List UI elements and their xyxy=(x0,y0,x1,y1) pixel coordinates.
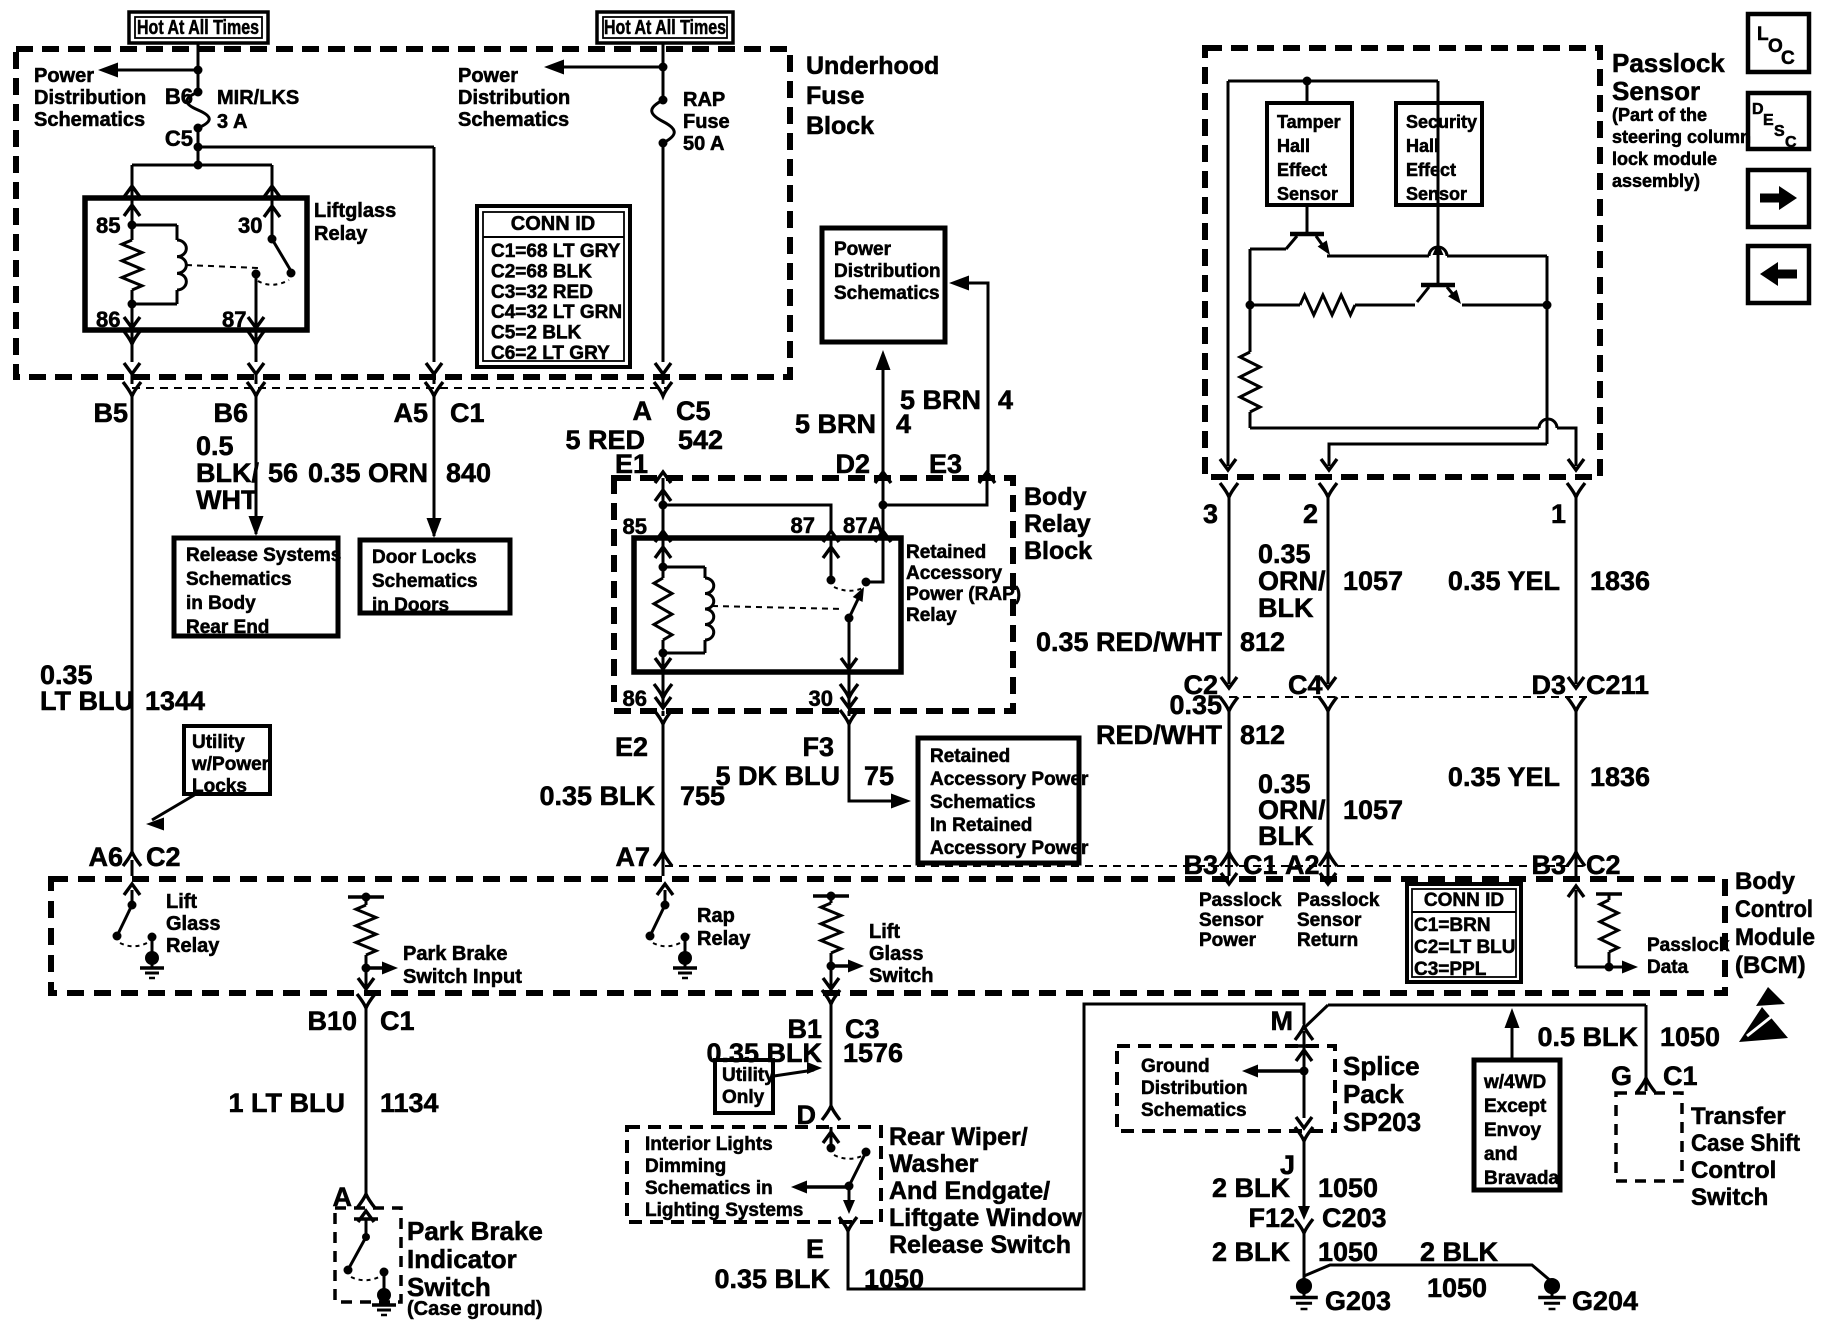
svg-text:Utility: Utility xyxy=(192,732,245,753)
svg-text:CONN ID: CONN ID xyxy=(1424,890,1504,911)
svg-text:Envoy: Envoy xyxy=(1484,1120,1541,1141)
svg-text:Sensor: Sensor xyxy=(1277,184,1338,204)
RAP coil actuation dashed link xyxy=(712,606,843,609)
svg-text:0.35: 0.35 xyxy=(1258,539,1311,569)
svg-text:Power (RAP): Power (RAP) xyxy=(906,584,1021,605)
CONN ID table (underhood) xyxy=(477,206,630,367)
wire pin 30 xyxy=(848,618,851,672)
svg-text:Effect: Effect xyxy=(1406,160,1456,180)
connector B10 C1 xyxy=(357,994,375,1008)
svg-text:1057: 1057 xyxy=(1343,795,1403,825)
svg-text:RAP: RAP xyxy=(683,89,725,111)
svg-text:Switch Input: Switch Input xyxy=(403,966,522,988)
CONN ID table (BCM) xyxy=(1407,884,1521,982)
svg-text:Release Systems: Release Systems xyxy=(186,545,341,566)
svg-text:0.5: 0.5 xyxy=(196,431,234,461)
svg-text:3: 3 xyxy=(1203,499,1218,529)
node at 147 xyxy=(194,143,203,152)
utility box arrow to B5 wire xyxy=(152,794,196,820)
node D2/E3 link xyxy=(879,501,888,510)
node 85 feed xyxy=(659,501,668,510)
svg-text:C: C xyxy=(1781,48,1795,69)
wire A2 (pin2) xyxy=(1327,711,1330,852)
wire RAP fuse down to A/C5 xyxy=(662,143,665,362)
wire arrow to power distribution schematics (middle) xyxy=(558,66,663,69)
svg-text:2 BLK: 2 BLK xyxy=(1212,1237,1291,1267)
svg-text:D: D xyxy=(1752,101,1764,118)
connector B5 xyxy=(123,382,141,396)
svg-text:Transfer: Transfer xyxy=(1691,1103,1786,1130)
ground (rap relay) xyxy=(678,951,692,965)
svg-text:Locks: Locks xyxy=(192,776,247,797)
wire G into transfer box xyxy=(1645,1078,1648,1091)
svg-text:86: 86 xyxy=(96,307,120,332)
svg-text:Lighting Systems: Lighting Systems xyxy=(645,1200,803,1221)
utility only box xyxy=(715,1060,773,1113)
pin 86 stub xyxy=(662,672,665,705)
svg-text:87: 87 xyxy=(222,307,246,332)
svg-text:Retained: Retained xyxy=(906,542,986,563)
park brake switch travel arc xyxy=(351,1276,381,1280)
svg-text:Retained: Retained xyxy=(930,746,1010,767)
svg-text:B5: B5 xyxy=(93,398,128,428)
svg-text:5 BRN: 5 BRN xyxy=(900,385,981,415)
svg-text:Park Brake: Park Brake xyxy=(403,943,508,965)
svg-text:812: 812 xyxy=(1240,627,1285,657)
node under hot box 2 xyxy=(659,63,668,72)
svg-text:Distribution: Distribution xyxy=(834,261,941,282)
svg-text:542: 542 xyxy=(678,425,723,455)
svg-text:1 LT BLU: 1 LT BLU xyxy=(229,1088,346,1118)
svg-text:G: G xyxy=(1611,1061,1632,1091)
wire A5 to door locks box xyxy=(433,396,436,536)
fuse MIR/LKS 3A xyxy=(194,88,203,97)
ground G204 xyxy=(1544,1278,1560,1294)
node coil bottom xyxy=(128,300,137,309)
svg-text:Power: Power xyxy=(458,65,518,87)
wire bus to tamper sensor xyxy=(1306,81,1309,103)
svg-text:C4: C4 xyxy=(1288,670,1323,700)
connector B6 xyxy=(247,382,265,396)
wire 87A contact xyxy=(866,538,883,582)
wire B1 down to D xyxy=(830,1004,833,1106)
svg-text:A: A xyxy=(633,396,653,426)
svg-text:Schematics: Schematics xyxy=(1141,1100,1247,1121)
svg-text:Lift: Lift xyxy=(869,921,900,943)
svg-text:30: 30 xyxy=(238,213,262,238)
wire junction to A5/C1 branch (right then down) xyxy=(198,146,434,149)
fuse RAP 50A xyxy=(659,96,668,105)
svg-text:Underhood: Underhood xyxy=(806,52,939,80)
w/4WD arrow up xyxy=(1511,1026,1514,1060)
svg-text:Body: Body xyxy=(1735,868,1796,895)
svg-text:And Endgate/: And Endgate/ xyxy=(889,1177,1050,1205)
utility only arrow xyxy=(774,1070,814,1076)
svg-text:1576: 1576 xyxy=(843,1038,903,1068)
svg-text:Module: Module xyxy=(1735,924,1815,951)
svg-text:C5: C5 xyxy=(676,396,711,426)
power distribution schematics box (right) xyxy=(822,228,945,342)
RAP relay box xyxy=(634,538,901,672)
svg-text:Security: Security xyxy=(1406,112,1477,132)
park brake switch arm xyxy=(349,1237,366,1268)
svg-text:C1: C1 xyxy=(1663,1061,1698,1091)
park brake switch input resistor xyxy=(348,895,384,899)
svg-text:Hall: Hall xyxy=(1277,136,1310,156)
svg-text:BLK: BLK xyxy=(1258,821,1314,851)
wire fuse to junction xyxy=(197,128,200,147)
svg-text:1836: 1836 xyxy=(1590,566,1650,596)
svg-text:0.35: 0.35 xyxy=(1169,690,1222,720)
svg-text:C3=PPL: C3=PPL xyxy=(1414,959,1487,980)
wire E2 down to A7 xyxy=(662,724,665,852)
svg-text:0.35 BLK: 0.35 BLK xyxy=(714,1264,830,1294)
connector B1 C3 xyxy=(822,990,840,1004)
passlock data resistor xyxy=(1596,892,1622,896)
svg-text:LT BLU: LT BLU xyxy=(40,686,134,716)
wire A5 branch crossing border xyxy=(426,363,442,374)
svg-text:0.35 YEL: 0.35 YEL xyxy=(1448,566,1560,596)
svg-text:30: 30 xyxy=(809,686,833,711)
svg-text:F12: F12 xyxy=(1248,1203,1295,1233)
svg-text:B10: B10 xyxy=(307,1006,357,1036)
svg-text:C2=LT BLU: C2=LT BLU xyxy=(1414,937,1516,958)
svg-text:0.5 BLK: 0.5 BLK xyxy=(1537,1022,1638,1052)
svg-text:Switch: Switch xyxy=(869,965,933,987)
svg-text:87: 87 xyxy=(791,513,815,538)
svg-text:5 DK BLU: 5 DK BLU xyxy=(715,761,840,791)
node coil bottom RAP xyxy=(659,649,668,658)
chevron E3 entry xyxy=(979,472,995,483)
svg-text:S: S xyxy=(1774,123,1785,140)
svg-text:Rear Wiper/: Rear Wiper/ xyxy=(889,1123,1028,1151)
wire Q1 emitter down to resistor row xyxy=(1249,249,1252,305)
svg-text:4: 4 xyxy=(998,385,1013,415)
w/4WD except envoy and bravada box xyxy=(1474,1060,1560,1190)
pin 30 stub xyxy=(848,672,851,705)
hot at all times box 1 xyxy=(129,12,268,43)
node coil top xyxy=(128,221,137,230)
svg-text:Bravada: Bravada xyxy=(1484,1168,1559,1189)
svg-text:(BCM): (BCM) xyxy=(1735,952,1806,979)
svg-text:3 A: 3 A xyxy=(217,111,247,133)
svg-text:Lift: Lift xyxy=(166,891,197,913)
svg-text:and: and xyxy=(1484,1144,1518,1165)
wire pin 86 to B5 connector xyxy=(131,330,134,362)
connector E xyxy=(839,1217,857,1231)
pin 87A chevron + label xyxy=(875,531,891,542)
svg-text:0.35 ORN: 0.35 ORN xyxy=(308,458,428,488)
wire 85 into relay xyxy=(662,505,665,538)
svg-text:C1: C1 xyxy=(380,1006,415,1036)
liftglass relay switch contact 87 xyxy=(252,270,261,279)
connector row C2/C4/D3 dashed xyxy=(1229,696,1590,698)
svg-text:Return: Return xyxy=(1297,930,1358,951)
RAP relay coil feed xyxy=(662,538,665,567)
svg-text:Hot At All Times: Hot At All Times xyxy=(137,17,259,39)
wire Q2 collector to right rail node xyxy=(1462,304,1547,307)
connector fine dashed row above BCM xyxy=(665,865,1583,867)
connector A5 C1 xyxy=(425,382,443,396)
splice pack entry bar xyxy=(1295,1044,1313,1048)
svg-text:Sensor: Sensor xyxy=(1297,910,1362,931)
park brake indicator switch dashed box xyxy=(335,1208,401,1302)
connector F3 xyxy=(848,711,851,716)
lift glass relay switch (in BCM) xyxy=(124,884,140,895)
park brake switch input arrow xyxy=(362,964,371,973)
transfer case shift control switch dashed box xyxy=(1616,1093,1682,1181)
svg-text:Sensor: Sensor xyxy=(1199,910,1264,931)
RAP relay resistor xyxy=(662,567,665,578)
wire E3 link xyxy=(883,478,987,505)
svg-text:Case Shift: Case Shift xyxy=(1691,1130,1800,1157)
wire B10 to park brake switch xyxy=(365,1008,368,1194)
svg-text:Power: Power xyxy=(1199,930,1257,951)
svg-text:Relay: Relay xyxy=(314,223,368,245)
svg-text:D3: D3 xyxy=(1531,670,1566,700)
svg-text:In Retained: In Retained xyxy=(930,815,1032,836)
wire coil to pin 86 xyxy=(131,304,134,330)
svg-text:2: 2 xyxy=(1303,499,1318,529)
svg-text:E2: E2 xyxy=(615,732,648,762)
svg-text:Distribution: Distribution xyxy=(1141,1078,1248,1099)
lift glass switch arrow xyxy=(827,962,836,971)
rear wiper switch travel arc xyxy=(834,1155,862,1159)
svg-text:Power: Power xyxy=(834,239,892,260)
svg-text:Accessory: Accessory xyxy=(906,563,1003,584)
svg-text:in Body: in Body xyxy=(186,593,256,614)
wire to B10 xyxy=(358,978,374,989)
liftglass relay switch pivot xyxy=(271,198,274,239)
node junction under hot box 1 xyxy=(194,66,203,75)
RAP relay coil xyxy=(663,566,705,569)
passlock sensor dashed box xyxy=(1205,48,1600,477)
passlock data wire (in BCM) xyxy=(1575,890,1578,967)
wire pin3 to C2 xyxy=(1228,497,1231,684)
svg-text:Accessory Power: Accessory Power xyxy=(930,769,1089,790)
connector A7 xyxy=(654,852,672,866)
svg-text:C4=32 LT GRN: C4=32 LT GRN xyxy=(491,302,622,323)
connector row dashed line xyxy=(132,387,668,389)
wire 85-87 link xyxy=(663,505,831,532)
liftglass relay switch arm xyxy=(272,239,291,271)
case ground xyxy=(377,1288,391,1302)
liftglass relay box xyxy=(85,198,307,330)
connector A C5 xyxy=(654,382,672,396)
svg-text:Schematics: Schematics xyxy=(458,109,569,131)
coil actuation dashed link xyxy=(186,265,258,268)
wire C2 (pin1) into BCM xyxy=(1575,711,1578,852)
transistor Q1 (tamper) xyxy=(1306,205,1309,234)
release systems schematics box xyxy=(174,538,338,636)
rap relay switch (in BCM) xyxy=(657,884,673,895)
svg-text:Except: Except xyxy=(1484,1096,1547,1117)
svg-text:B6: B6 xyxy=(213,398,248,428)
svg-text:Control: Control xyxy=(1735,896,1813,923)
transistor Q2 (security) xyxy=(1437,103,1440,285)
svg-text:Release Switch: Release Switch xyxy=(889,1231,1071,1259)
svg-text:C5=2 BLK: C5=2 BLK xyxy=(491,323,582,344)
wire F12 to ground G203 xyxy=(1303,1233,1306,1280)
wire relay feed horizontal xyxy=(132,164,272,167)
svg-text:Utility: Utility xyxy=(722,1065,775,1086)
wire E to splice pack M (rectangle path) xyxy=(848,1004,1304,1289)
svg-text:A5: A5 xyxy=(393,398,428,428)
wire from hot box 1 xyxy=(197,43,200,92)
svg-text:Switch: Switch xyxy=(407,1272,491,1302)
svg-text:C1=BRN: C1=BRN xyxy=(1414,915,1491,936)
pin 87 chevron + label xyxy=(823,531,839,542)
interior lights dimming dashed box xyxy=(627,1127,881,1222)
wire J to F12 xyxy=(1303,1141,1306,1212)
svg-text:Dimming: Dimming xyxy=(645,1156,726,1177)
passlock top bus wire xyxy=(1228,80,1438,83)
svg-text:C2=68 BLK: C2=68 BLK xyxy=(491,261,592,282)
svg-text:assembly): assembly) xyxy=(1612,171,1700,191)
connector M xyxy=(1295,1026,1313,1040)
svg-text:Effect: Effect xyxy=(1277,160,1327,180)
park brake switch contact bar xyxy=(358,1211,374,1222)
svg-text:Hall: Hall xyxy=(1406,136,1439,156)
svg-text:w/4WD: w/4WD xyxy=(1483,1072,1546,1093)
rear wiper switch output arrow xyxy=(848,1186,851,1206)
svg-text:2 BLK: 2 BLK xyxy=(1212,1173,1291,1203)
svg-text:Power: Power xyxy=(34,65,94,87)
utility w/power locks box xyxy=(184,726,270,794)
svg-text:Liftglass: Liftglass xyxy=(314,200,396,222)
svg-text:Glass: Glass xyxy=(166,913,220,935)
svg-text:BLK: BLK xyxy=(1258,593,1314,623)
svg-text:Fuse: Fuse xyxy=(806,82,864,110)
svg-text:C211: C211 xyxy=(1586,670,1649,700)
ESD warning symbol xyxy=(1756,987,1785,1006)
svg-text:Control: Control xyxy=(1691,1157,1776,1184)
hot at all times box 2 xyxy=(597,12,733,43)
wire F3 to retained accessory power arrow xyxy=(849,724,903,801)
rear wiper switch contact from D xyxy=(830,1127,833,1148)
svg-text:86: 86 xyxy=(623,686,647,711)
wire pin 87 to B6 connector xyxy=(255,330,258,362)
svg-text:Sensor: Sensor xyxy=(1612,76,1700,106)
svg-text:in Doors: in Doors xyxy=(372,595,449,616)
passlock resistor R2 (vertical) xyxy=(1249,305,1252,352)
svg-text:1050: 1050 xyxy=(1427,1273,1487,1303)
svg-text:Distribution: Distribution xyxy=(34,87,146,109)
svg-text:56: 56 xyxy=(268,458,298,488)
svg-text:E: E xyxy=(806,1234,824,1264)
wire B5 down to A6/C2 xyxy=(131,396,134,852)
wire arrow to power distribution schematics (left) xyxy=(112,69,198,72)
svg-text:Rap: Rap xyxy=(697,905,735,927)
forward arrow icon box xyxy=(1748,170,1809,227)
svg-text:Data: Data xyxy=(1647,957,1689,978)
svg-text:0.35 YEL: 0.35 YEL xyxy=(1448,762,1560,792)
svg-text:Interior Lights: Interior Lights xyxy=(645,1134,773,1155)
svg-text:E3: E3 xyxy=(929,449,962,479)
svg-text:2 BLK: 2 BLK xyxy=(1420,1237,1499,1267)
svg-text:C1=68 LT GRY: C1=68 LT GRY xyxy=(491,241,621,262)
svg-text:BLK/: BLK/ xyxy=(196,458,259,488)
svg-text:C3=32 RED: C3=32 RED xyxy=(491,282,593,303)
svg-text:Passlock: Passlock xyxy=(1297,890,1380,911)
svg-text:Passlock: Passlock xyxy=(1199,890,1282,911)
svg-text:Passlock: Passlock xyxy=(1647,935,1730,956)
wire D2 down to 87A xyxy=(882,478,885,538)
chevron D2 entry xyxy=(875,472,891,483)
wire E3 to power dist box (left arrow) xyxy=(957,283,988,472)
svg-text:Body: Body xyxy=(1024,483,1087,511)
svg-text:Block: Block xyxy=(806,112,874,140)
svg-text:C1: C1 xyxy=(450,398,485,428)
svg-text:Accessory Power: Accessory Power xyxy=(930,838,1089,859)
wire pin2 to C4 xyxy=(1327,497,1330,684)
liftglass relay coil xyxy=(132,224,177,227)
pin 85 chevron + label xyxy=(655,531,671,542)
wire pin 3 from bus xyxy=(1227,81,1230,466)
svg-text:w/Power: w/Power xyxy=(191,754,270,775)
svg-text:75: 75 xyxy=(864,761,894,791)
wire B6 to release systems box xyxy=(255,396,258,534)
svg-text:840: 840 xyxy=(446,458,491,488)
security hall effect sensor box xyxy=(1396,103,1482,205)
svg-text:G204: G204 xyxy=(1572,1286,1638,1316)
svg-text:1050: 1050 xyxy=(1318,1173,1378,1203)
passlock pin connectors xyxy=(1220,483,1238,497)
svg-text:Rear End: Rear End xyxy=(186,617,269,638)
LOC icon box xyxy=(1748,14,1809,72)
connector J xyxy=(1295,1127,1313,1141)
svg-text:812: 812 xyxy=(1240,720,1285,750)
wire right rail to pin 2 xyxy=(1329,444,1547,466)
connector G C1 xyxy=(1637,1078,1655,1092)
svg-text:87A: 87A xyxy=(843,513,883,538)
svg-text:C2: C2 xyxy=(146,842,181,872)
DESC icon box xyxy=(1748,93,1809,149)
svg-text:C203: C203 xyxy=(1322,1203,1387,1233)
svg-text:Distribution: Distribution xyxy=(458,87,570,109)
svg-text:Tamper: Tamper xyxy=(1277,112,1341,132)
svg-text:RED/WHT: RED/WHT xyxy=(1096,720,1222,750)
svg-text:(Part of the: (Part of the xyxy=(1612,105,1707,125)
wire to liftglass relay pin 85 xyxy=(131,165,134,198)
lift glass switch resistor (in BCM) xyxy=(813,894,849,898)
wire from hot box 2 xyxy=(662,43,665,100)
rear wiper switch arm xyxy=(862,1148,871,1157)
svg-text:ORN/: ORN/ xyxy=(1258,566,1326,596)
svg-text:F3: F3 xyxy=(802,732,834,762)
svg-text:CONN ID: CONN ID xyxy=(511,213,595,235)
ground distribution schematics dashed box xyxy=(1117,1046,1335,1131)
wire G203 to G204 xyxy=(1304,1265,1552,1282)
svg-text:1050: 1050 xyxy=(1318,1237,1378,1267)
svg-text:Passlock: Passlock xyxy=(1612,48,1725,78)
wire 0.5 BLK to transfer case switch xyxy=(1645,1005,1648,1078)
svg-text:1057: 1057 xyxy=(1343,566,1403,596)
svg-text:Glass: Glass xyxy=(869,943,923,965)
wire M down through splice box xyxy=(1303,1031,1306,1118)
ground G203 xyxy=(1296,1278,1312,1294)
RAP switch arm xyxy=(849,597,859,618)
svg-text:Schematics: Schematics xyxy=(186,569,292,590)
wire 87 contact xyxy=(830,538,833,580)
svg-text:Schematics: Schematics xyxy=(834,283,940,304)
wire pin1 to D3 xyxy=(1575,497,1578,684)
svg-text:Liftgate Window: Liftgate Window xyxy=(889,1204,1082,1232)
door locks schematics box xyxy=(360,540,510,613)
svg-text:Schematics: Schematics xyxy=(34,109,145,131)
svg-text:1836: 1836 xyxy=(1590,762,1650,792)
wire bus to security sensor xyxy=(1437,81,1440,103)
